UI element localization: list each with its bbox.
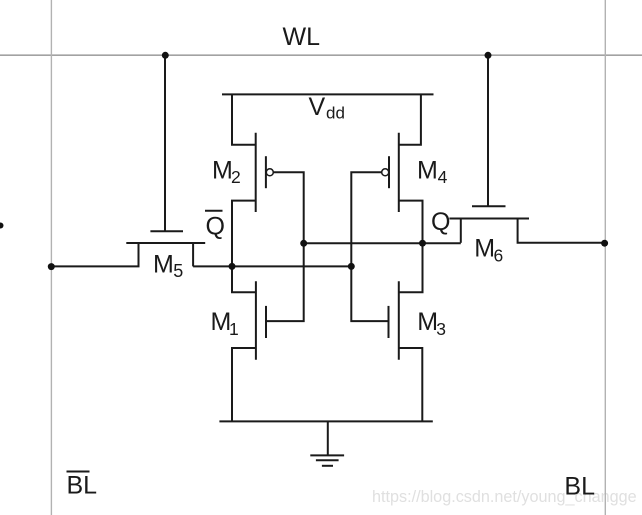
svg-text:4: 4	[438, 167, 448, 187]
svg-text:M: M	[417, 156, 438, 184]
svg-text:2: 2	[231, 167, 241, 187]
svg-text:Q: Q	[206, 212, 225, 240]
svg-text:5: 5	[173, 261, 183, 281]
svg-text:Q: Q	[431, 208, 450, 236]
svg-text:3: 3	[436, 319, 446, 339]
svg-text:WL: WL	[283, 23, 321, 51]
svg-text:dd: dd	[326, 104, 345, 123]
svg-text:M: M	[212, 156, 233, 184]
svg-text:https://blog.csdn.net/young_ch: https://blog.csdn.net/young_changge	[372, 488, 637, 506]
svg-text:6: 6	[494, 245, 504, 265]
svg-text:BL: BL	[67, 472, 98, 500]
svg-text:M: M	[417, 308, 438, 336]
svg-text:M: M	[153, 250, 174, 278]
svg-text:V: V	[309, 93, 326, 121]
svg-text:1: 1	[229, 319, 239, 339]
svg-text:M: M	[474, 235, 495, 263]
svg-text:BL: BL	[564, 473, 595, 501]
